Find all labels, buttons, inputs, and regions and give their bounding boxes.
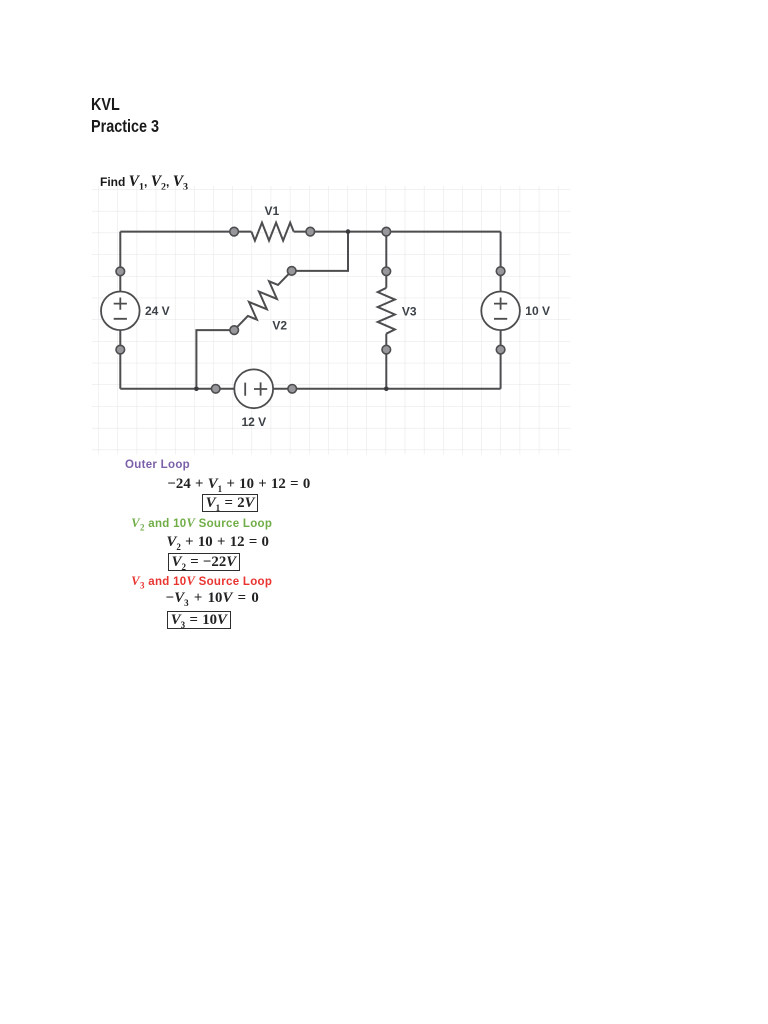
svg-text:12 V: 12 V (242, 415, 267, 429)
document title (91, 93, 159, 138)
svg-text:10 V: 10 V (525, 304, 550, 318)
wire bottom (120, 388, 500, 390)
wire top left: 24V top to V1 left (120, 231, 251, 233)
wire V2 upper terminal to top-wire junction (292, 232, 348, 271)
terminal dot 10V bottom (496, 345, 505, 354)
junction node bottom left (194, 387, 199, 392)
terminal dot V3 bottom (382, 345, 391, 354)
terminal dot 12V left (211, 385, 220, 394)
resistor V1 (251, 223, 293, 241)
terminal dot V1 right (306, 227, 315, 236)
wire V2 lower terminal to bottom-wire junction (196, 330, 234, 389)
terminal dot 10V top (496, 267, 505, 276)
voltage source 10V (481, 292, 520, 331)
wire left side (24V branch) (119, 232, 121, 389)
equation V3 loop (166, 590, 259, 607)
terminal dot 24V bottom (116, 345, 125, 354)
junction node bottom (V3 to bottom wire) (384, 387, 389, 392)
find V1 V2 V3 heading (100, 173, 188, 191)
svg-text:V3: V3 (402, 305, 417, 319)
svg-text:24 V: 24 V (145, 304, 170, 318)
resistor V3 (378, 288, 395, 334)
junction node top (V2 branch to top wire) (346, 229, 351, 234)
text V3 loop header (131, 574, 272, 589)
terminal dot V2 upper (287, 267, 296, 276)
terminal dot V1 left (230, 227, 239, 236)
terminal dot V3 top (382, 267, 391, 276)
text Outer Loop header (125, 459, 190, 471)
svg-text:V2: V2 (272, 319, 287, 333)
equation outer loop (168, 476, 311, 493)
terminal dot V3 top-wire tap (382, 227, 391, 236)
terminal dot 12V right (288, 385, 297, 394)
wire top right: V1 right to 10V top corner (294, 231, 501, 233)
resistor V2 (diagonal) (228, 265, 298, 337)
boxed answer V3 = 10V (167, 611, 231, 629)
terminal dot V2 lower (230, 326, 239, 335)
equation V2 loop (167, 534, 269, 551)
voltage source 12V (234, 369, 273, 408)
terminal dot 24V top (116, 267, 125, 276)
boxed answer V1 = 2V (202, 494, 259, 512)
wire V3 branch vertical (385, 232, 387, 389)
voltage source 24V (101, 292, 140, 331)
wire right side (10V branch) (500, 232, 502, 389)
boxed answer V2 = -22V (168, 553, 241, 571)
text V2 loop header (131, 516, 272, 531)
svg-text:V1: V1 (265, 204, 280, 218)
